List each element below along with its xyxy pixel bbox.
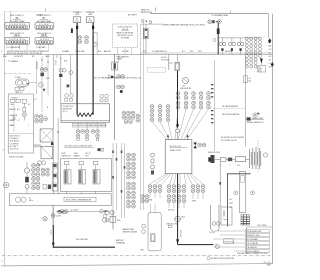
relay tower 1 [64, 161, 71, 184]
sensor drop wire [219, 161, 221, 207]
right circle cluster A [122, 111, 126, 115]
bus wires beside circle column [113, 143, 125, 228]
right module tall box [240, 172, 246, 213]
candle hook marks [209, 232, 215, 233]
battery circle [3, 182, 9, 188]
chain terminal labels [221, 165, 241, 167]
dash-dot boundary [5, 73, 34, 75]
svg-text:CHARGE: CHARGE [10, 114, 18, 117]
svg-text:Y-B: Y-B [268, 60, 271, 62]
net leader lines [213, 231, 245, 251]
connector row under glow box [76, 130, 80, 134]
tachometer notes [222, 105, 240, 116]
svg-text:L-R ST RELAY: L-R ST RELAY [246, 242, 258, 245]
svg-text:IDLE UP VSV: IDLE UP VSV [141, 12, 153, 14]
super glow labels [221, 137, 244, 142]
connector C1 body [5, 22, 30, 29]
fusible link F1 [73, 17, 81, 23]
dashed sub box [148, 68, 166, 73]
circles left of module [142, 224, 146, 233]
svg-text:TIMER: TIMER [117, 59, 123, 61]
bus label row under bus left [3, 55, 50, 58]
node under box1 [51, 143, 53, 146]
sensor chain column [24, 162, 29, 194]
svg-text:Y-B SENSOR: Y-B SENSOR [246, 247, 257, 249]
drop wire at right end of top rail [268, 14, 270, 38]
svg-text:GAUGE: GAUGE [10, 108, 17, 111]
svg-text:TIMER CONT: TIMER CONT [170, 150, 182, 152]
svg-text:1.25 B: 1.25 B [50, 230, 52, 236]
terminal label rows [62, 153, 92, 157]
top rail labels [36, 14, 138, 17]
svg-text:B-Y IGN MAIN: B-Y IGN MAIN [246, 238, 258, 241]
relay component on x114.7 [112, 62, 118, 70]
connector C2 body [35, 22, 54, 29]
key start circle [43, 217, 47, 221]
svg-text:MAIN GLOW RELAY: MAIN GLOW RELAY [117, 31, 135, 34]
harness second row mid [167, 195, 171, 203]
speed sensor comb [250, 147, 261, 169]
wire x42 pair circles [40, 68, 44, 72]
connector C4 body [35, 37, 54, 44]
ground pair below tie wire [103, 214, 109, 222]
svg-text:TO STARTER RLY: TO STARTER RLY [152, 50, 168, 53]
svg-text:W-L: W-L [249, 81, 252, 83]
bottom-right candle connector pair [211, 205, 219, 231]
combination meter box 2 [41, 146, 53, 159]
module side circle left [234, 191, 238, 195]
svg-text:B-W ENGINE GND: B-W ENGINE GND [246, 231, 262, 233]
heater coil element [77, 113, 93, 116]
svg-text:EX. SUPER GLOW: EX. SUPER GLOW [221, 140, 237, 142]
dark connector on x60.8 [59, 74, 62, 77]
svg-text:WATER TEMP: WATER TEMP [252, 117, 264, 120]
heavy lower-right feeds [227, 174, 251, 227]
heavy feed wire down right [217, 23, 219, 55]
svg-text:TO COMB METER: TO COMB METER [6, 47, 21, 49]
relay code cluster [32, 164, 36, 172]
svg-text:R-L: R-L [268, 53, 271, 55]
code circle pair on tie wire [60, 210, 68, 214]
title block text [264, 262, 272, 267]
bus label chunks mid [62, 50, 129, 53]
generator box [9, 194, 111, 206]
zone label rows above main bus [1, 51, 49, 55]
page frame left border [3, 11, 5, 266]
feeder stub to dashed box [168, 54, 170, 70]
svg-text:TO CHARGE: TO CHARGE [8, 60, 19, 63]
nozzle bus [218, 37, 260, 39]
left border zone tick [2, 149, 4, 151]
sender leader line [246, 117, 265, 124]
dashed drop right [257, 140, 259, 172]
dark connector on x42 [41, 73, 44, 77]
stub into ECU [177, 133, 179, 140]
junction circle with plus [51, 214, 61, 218]
dashed relay box top-middle [113, 24, 138, 48]
svg-text:TO TAIL: TO TAIL [36, 14, 43, 17]
svg-text:B8-B: B8-B [41, 35, 47, 37]
svg-text:IG SW: IG SW [15, 77, 21, 79]
connector C2 label [37, 15, 53, 23]
dashed separator [213, 108, 245, 110]
svg-text:FUEL HTR: FUEL HTR [225, 241, 234, 243]
scattered wire labels mid-left [8, 60, 68, 109]
svg-text:AM1 B-Y: AM1 B-Y [16, 91, 24, 94]
svg-text:2L-T: 2L-T [258, 67, 261, 69]
top right source text [211, 14, 229, 17]
svg-text:SENDER GAUGE: SENDER GAUGE [123, 230, 138, 233]
zone diamond right border [271, 62, 274, 67]
relay tower 2 [79, 161, 86, 184]
ECU bottom fan [150, 174, 203, 184]
heavy timer wire [177, 71, 179, 126]
left sensor connector [208, 152, 221, 163]
svg-text:LINK: LINK [75, 14, 80, 16]
wire code circles on glow wire 1 [78, 36, 82, 44]
codes above module [141, 195, 145, 203]
noise filter note [207, 257, 234, 261]
glow plug controller label [64, 146, 94, 148]
ground circle T1 [93, 42, 97, 46]
column code circles left of ECU [127, 153, 131, 161]
wire x36.4 [35, 60, 37, 94]
svg-text:W-B GROUND: W-B GROUND [76, 239, 89, 241]
svg-text:2: 2 [229, 165, 230, 167]
svg-text:IG2 ACC: IG2 ACC [11, 96, 19, 99]
combination meter box 1 [40, 129, 53, 142]
junction square on starter wire [52, 243, 54, 245]
ECU pin cluster row 2 [176, 101, 180, 109]
svg-text:11 12 13 14 15 16: 11 12 13 14 15 16 [11, 42, 25, 44]
wire x70.7 [70, 54, 72, 94]
svg-text:G-W SIG S: G-W SIG S [10, 149, 20, 151]
module divider [8, 133, 33, 135]
meter leader lines [34, 145, 42, 147]
svg-text:W/O TACHOMETER: W/O TACHOMETER [222, 113, 240, 116]
code circle on tie wire right [100, 210, 104, 214]
vane sensor label [141, 9, 153, 14]
module lamp [22, 112, 26, 120]
fusible link F2 [86, 17, 94, 23]
svg-text:LINK: LINK [88, 14, 93, 16]
svg-text:SYSTEM): SYSTEM) [121, 38, 129, 40]
starter wire end labels [116, 239, 125, 245]
svg-text:L: L [28, 125, 29, 127]
svg-text:A/T SHIFT: A/T SHIFT [128, 14, 138, 17]
starter circles pair [58, 210, 67, 214]
splice blob on wire [111, 76, 113, 78]
water temp lamp [253, 112, 260, 117]
junction circle lower right [215, 244, 219, 248]
branch wire right of F2 [93, 32, 97, 54]
svg-text:TO IGN MAIN RELAY: TO IGN MAIN RELAY [211, 14, 229, 17]
grid stub line [260, 64, 262, 66]
thick glow wire 2 [92, 23, 94, 115]
splice on sensor drop [219, 182, 221, 185]
bus label chunks right [143, 50, 232, 53]
svg-text:THW: THW [192, 201, 196, 203]
wire 1 splice pin [76, 26, 78, 29]
module relay chain [22, 99, 26, 111]
filled node below pair [120, 90, 123, 93]
check connector label [166, 223, 179, 227]
turbocharger caption [162, 23, 205, 26]
resistor inside module [151, 234, 156, 242]
glow plug G2 [229, 38, 236, 55]
svg-text:0.5G: 0.5G [88, 21, 92, 23]
bus wire B upper right [140, 52, 272, 54]
bus stub node [56, 54, 58, 58]
indicator box pair [98, 148, 104, 151]
svg-text:2L-T ONLY: 2L-T ONLY [70, 209, 79, 211]
harness circles below ECU left [148, 185, 152, 193]
module terminal row [10, 96, 20, 102]
ECU main down wire [177, 174, 179, 245]
connector C3 body [5, 37, 30, 44]
dark hatch connector [241, 215, 250, 225]
node circle below arrow [176, 129, 180, 133]
left pin cluster rows [150, 105, 154, 113]
stubs controller to generator [67, 191, 96, 193]
module inner wire [13, 102, 15, 132]
filled diamond marker [268, 38, 271, 43]
svg-text:W/ SUPER GLOW SYSTEM: W/ SUPER GLOW SYSTEM [221, 137, 244, 139]
svg-text:GLOW PLUG (INTAKE AIR HEATER): GLOW PLUG (INTAKE AIR HEATER) [74, 124, 108, 127]
top right contact cluster [208, 20, 222, 24]
dashed box pin stubs [118, 48, 132, 55]
dark box right of ECU [208, 157, 212, 161]
svg-text:1.25 B: 1.25 B [54, 60, 56, 66]
svg-text:W-L TO PRE-HEATING TIMER B-R: W-L TO PRE-HEATING TIMER B-R GLOW PLUG I… [94, 77, 141, 80]
svg-text:0.5 L: 0.5 L [237, 165, 241, 167]
svg-text:IG SW ST1: IG SW ST1 [14, 56, 23, 58]
fusible link F2 label [86, 12, 95, 16]
tie wire under generator [56, 209, 109, 212]
svg-text:L-W: L-W [268, 49, 271, 51]
connector C3 label [10, 33, 24, 37]
junction dot [57, 131, 58, 132]
circle on x70.7 [69, 71, 73, 75]
page frame right border [271, 14, 273, 264]
svg-text:TURBOCHARGER INDICATOR (2L-TE: TURBOCHARGER INDICATOR (2L-TE ONLY) [162, 23, 205, 26]
switch terminal boxes [15, 88, 24, 95]
resistor R2 [175, 62, 180, 70]
svg-text:B-W: B-W [64, 61, 68, 63]
pin boxes under connector row [77, 138, 99, 140]
wire x58.1 [57, 118, 59, 194]
left module box [8, 94, 33, 153]
svg-text:W-B BODY GND: W-B BODY GND [246, 235, 260, 237]
glow controller upstream terminals [65, 94, 74, 101]
wire x42 [41, 56, 43, 112]
filled triangle marker [43, 89, 46, 92]
net vertical collector [246, 227, 248, 254]
starter heavy L-wire [53, 225, 115, 247]
oil pressure switch circle [175, 216, 186, 222]
harness circles below ECU right [191, 185, 195, 193]
harness circles below ECU mid [167, 185, 171, 193]
electric generator label [64, 197, 96, 201]
arrow into wire [108, 75, 112, 78]
arrowhead on timer wire [176, 124, 179, 128]
svg-text:(2L-T): (2L-T) [63, 111, 68, 113]
net label row top [247, 225, 272, 227]
generator down wire [52, 206, 54, 226]
connector pin stub left [71, 28, 73, 33]
module inner node [13, 117, 15, 119]
connector C1 label [10, 15, 26, 23]
net label boxes [245, 230, 269, 253]
heavy wire turn right [178, 244, 214, 246]
svg-text:STA 30 G-W NSW: STA 30 G-W NSW [9, 156, 24, 159]
glow plug label [72, 123, 107, 127]
svg-text:GLOW 30A: GLOW 30A [75, 50, 85, 53]
ECU box [165, 140, 192, 174]
svg-text:2.0L: 2.0L [75, 21, 79, 23]
svg-text:1 2 3 4 5 6 7: 1 2 3 4 5 6 7 [39, 24, 50, 26]
zone tick top [45, 8, 47, 12]
circle pair on x60.8 [59, 69, 66, 73]
svg-text:A 25 GLOW 1 B: A 25 GLOW 1 B [118, 25, 132, 28]
module left column text [10, 103, 31, 127]
stub wire x118.5 [118, 54, 120, 62]
svg-text:LAMP: LAMP [10, 124, 16, 127]
svg-text:E01 E02: E01 E02 [168, 210, 175, 212]
svg-text:CHECK CONN: CHECK CONN [166, 223, 179, 225]
wire x60.8 [60, 54, 62, 103]
harness row labels [149, 199, 196, 212]
collector wire y24 [141, 23, 163, 25]
svg-text:ELECTRIC GENERATOR: ELECTRIC GENERATOR [66, 198, 91, 201]
mid bottom relay cluster [102, 210, 121, 230]
warning bowtie [194, 143, 197, 149]
svg-text:J/B NO.1: J/B NO.1 [42, 51, 49, 53]
resistor ladder 1 [52, 163, 57, 191]
sub feeder label [161, 57, 170, 61]
inter-row caption [6, 46, 46, 49]
page frame bottom border [1, 264, 273, 266]
resistor R1 body [144, 28, 148, 39]
terminal box row [43, 185, 51, 190]
junction dots [41, 58, 61, 63]
long wire x53.3 [52, 54, 54, 128]
connector C4 label [37, 33, 51, 37]
svg-text:W-B: W-B [268, 46, 271, 48]
svg-text:7 8 9 10: 7 8 9 10 [41, 42, 47, 44]
module side circle right [251, 191, 255, 195]
ignition switch oval [16, 79, 30, 86]
svg-text:PLUG SIG: PLUG SIG [161, 59, 170, 61]
long wire x53.3 lower [52, 142, 54, 194]
ECU pin code grid [245, 37, 261, 68]
fuel heater box [224, 239, 234, 244]
water temp sender label [123, 228, 138, 233]
dark mark x67 [67, 85, 70, 88]
svg-text:VEHICLE SPD: VEHICLE SPD [208, 152, 221, 154]
svg-text:1.25 W-B: 1.25 W-B [179, 230, 181, 238]
bottom-right module box [221, 207, 232, 225]
main bus wire A [3, 53, 273, 55]
fusible link F1 label [73, 12, 82, 16]
glow plug G3 [237, 38, 244, 55]
svg-text:AM2 5A: AM2 5A [104, 50, 111, 53]
svg-text:1 2 3 4 5 6 7 8 9 10: 1 2 3 4 5 6 7 8 9 10 [9, 24, 25, 26]
stubs from glow box to connector row [78, 122, 98, 129]
vane sensor contacts [141, 19, 152, 23]
svg-text:W/ TACHOMETER: W/ TACHOMETER [222, 105, 239, 108]
code circles right of wire [117, 75, 121, 79]
svg-text:1: 1 [221, 165, 222, 167]
connector box on right bus [244, 76, 252, 83]
ECU top pin arrows [167, 135, 189, 140]
controller box [61, 159, 112, 192]
svg-text:STA IGSW W-L: STA IGSW W-L [180, 87, 192, 90]
svg-text:REG: REG [29, 200, 33, 202]
oval to wire link [29, 82, 36, 84]
lower-left module rounded box [148, 213, 161, 251]
harness stubs below circle rows [150, 193, 203, 208]
mid cluster circles [35, 115, 39, 119]
stubs into lower-left module [151, 204, 156, 213]
svg-text:SAFETY: SAFETY [74, 154, 82, 157]
svg-text:NE SPD: NE SPD [225, 51, 232, 53]
svg-text:11 12 13 14 15 16: 11 12 13 14 15 16 [11, 27, 25, 29]
vehicle speed sensor chain [215, 157, 249, 162]
splice marks on column wires [112, 151, 125, 193]
sensor mark left [213, 39, 216, 42]
vertical wire pair left of ECU [141, 22, 144, 210]
svg-text:8 9 10 11: 8 9 10 11 [41, 27, 48, 29]
svg-text:W-L IND: W-L IND [122, 51, 129, 53]
svg-text:NOISE FILTER (IGNITION): NOISE FILTER (IGNITION) [211, 258, 234, 260]
circle pair under meter box [38, 161, 46, 165]
zone tick top right [230, 11, 232, 14]
svg-text:G-W: G-W [268, 67, 272, 69]
wire code circles on glow wire 2 [85, 36, 89, 44]
frame dash-dot separator [2, 255, 271, 257]
ECU pin cluster row 1 [176, 92, 180, 100]
connector drop stubs [12, 44, 49, 50]
svg-text:IG MAIN: IG MAIN [62, 50, 70, 53]
pre-heat label under bus [117, 56, 130, 61]
circles right of bowtie [198, 143, 202, 147]
glow plug heater box [61, 104, 110, 122]
page frame top line [4, 11, 150, 13]
bent wire to R2 [169, 63, 173, 70]
svg-text:B-W: B-W [3, 56, 7, 58]
wire 2 splice pin [92, 26, 94, 29]
black arrow marker [260, 59, 263, 64]
solid left wire x214.6 [214, 60, 216, 151]
zone tick E [155, 8, 157, 12]
top-right feed wire [150, 13, 269, 15]
lamp circle mid [38, 82, 43, 87]
glow plug G1 [219, 38, 226, 55]
module bottom text block [10, 136, 21, 151]
terminals above glow box right [100, 94, 108, 101]
svg-text:T: T [107, 220, 108, 222]
svg-text:30A GLOW: 30A GLOW [62, 154, 71, 157]
boxed note bottom of grid [257, 65, 265, 72]
right bus wire x114.7 [114, 54, 116, 140]
circles mid right pair [117, 85, 121, 89]
comb node circle [263, 153, 267, 157]
svg-text:TO A/C AMP: TO A/C AMP [36, 46, 46, 49]
svg-text:TERMINAL: TERMINAL [116, 241, 125, 244]
sensor chain left of ECU [151, 153, 155, 175]
feeder stub to R2 [177, 54, 179, 62]
